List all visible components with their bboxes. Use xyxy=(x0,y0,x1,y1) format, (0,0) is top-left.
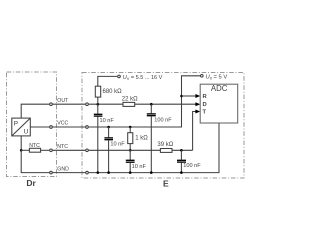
svg-text:P: P xyxy=(14,120,19,127)
svg-text:10 nF: 10 nF xyxy=(100,118,115,124)
capacitor 100 nF (on T) top wire xyxy=(180,150,182,160)
wire OUT harness xyxy=(53,103,86,105)
svg-text:680 kΩ: 680 kΩ xyxy=(103,89,123,95)
svg-text:E: E xyxy=(163,179,169,189)
svg-text:NTC: NTC xyxy=(29,143,40,149)
wire cap to GND xyxy=(97,117,99,173)
wire sensor to NTC node xyxy=(20,136,22,150)
arrow into R pin xyxy=(195,94,200,98)
resistor 22 kOhm xyxy=(123,102,135,106)
wire into R pin xyxy=(182,95,197,97)
wire to NTC resistor xyxy=(21,149,29,151)
enclosure E (ECU dashed box) xyxy=(82,73,244,179)
capacitor 100 nF (on T) plates xyxy=(177,160,186,162)
wire 680k bottom xyxy=(97,97,99,104)
junction GND/10nF ntc xyxy=(129,171,132,174)
junction GND/100nF t xyxy=(180,171,183,174)
svg-text:22 kΩ: 22 kΩ xyxy=(122,96,138,102)
svg-text:UV = 5.5 ... 16 V: UV = 5.5 ... 16 V xyxy=(123,75,163,81)
wire VCC rail to 5V xyxy=(89,76,200,127)
wire OUT to ADC D xyxy=(135,103,197,105)
svg-text:ADC: ADC xyxy=(211,84,228,93)
svg-text:10 nF: 10 nF xyxy=(110,141,125,147)
svg-text:39 kΩ: 39 kΩ xyxy=(157,142,173,148)
wire NTC inside E xyxy=(89,149,161,151)
wire VCC harness xyxy=(53,126,86,128)
capacitor 10 nF (on VCC) top wire xyxy=(108,127,110,137)
wire into T pin xyxy=(193,112,197,151)
terminal OUT (E side) xyxy=(86,103,89,106)
capacitor 100 nF (on OUT) top wire xyxy=(150,104,152,113)
wire OUT inside E xyxy=(89,103,123,105)
wire 680k top to supply xyxy=(98,76,118,86)
svg-text:D: D xyxy=(203,102,207,108)
wire 1k top xyxy=(129,127,131,133)
terminal NTC (E side) xyxy=(86,149,89,152)
svg-text:NTC: NTC xyxy=(57,144,68,150)
svg-text:Dr: Dr xyxy=(26,178,36,188)
IC ADC box xyxy=(200,84,238,123)
arrow into D pin xyxy=(195,102,200,106)
terminal U0 supply xyxy=(201,75,204,78)
junction GND/100nF out xyxy=(150,171,153,174)
svg-text:OUT: OUT xyxy=(57,98,69,104)
capacitor 10 nF (on OUT) plates xyxy=(94,114,103,116)
resistor 1 kOhm xyxy=(128,133,133,144)
junction R/5V xyxy=(180,95,183,98)
wire GND inside Dr xyxy=(21,150,49,172)
capacitor 10 nF (on VCC) plates xyxy=(104,138,113,140)
svg-text:U: U xyxy=(24,128,29,135)
svg-text:100 nF: 100 nF xyxy=(154,117,172,123)
terminal VCC (Dr side) xyxy=(50,126,53,129)
terminal NTC (Dr side) xyxy=(50,149,53,152)
junction VCC/1k xyxy=(129,126,132,129)
junction GND/10nF out xyxy=(97,171,100,174)
wire OUT from sensor xyxy=(21,104,49,118)
capacitor 10 nF (on NTC) top wire xyxy=(129,150,131,160)
wire cap to GND xyxy=(108,140,110,173)
resistor NTC xyxy=(29,148,40,152)
terminal GND (Dr side) xyxy=(50,171,53,174)
enclosure Dr (sensor dashed box) xyxy=(7,72,57,177)
svg-text:U0 = 5 V: U0 = 5 V xyxy=(206,74,228,80)
wire 1k bottom xyxy=(129,144,131,151)
svg-text:GND: GND xyxy=(57,166,69,172)
junction NTC/1k xyxy=(129,149,132,152)
terminal UV supply xyxy=(118,75,121,78)
junction GND/10nF vcc xyxy=(107,171,110,174)
junction OUT/100n xyxy=(150,103,153,106)
terminal VCC (E side) xyxy=(86,126,89,129)
resistor 680 kOhm xyxy=(95,86,100,97)
junction T node xyxy=(180,149,183,152)
resistor 39 kOhm xyxy=(160,149,172,153)
junction VCC/10nF xyxy=(107,126,110,129)
wire NTC harness xyxy=(53,149,86,151)
svg-text:1 kΩ: 1 kΩ xyxy=(135,136,148,142)
wire VCC from sensor xyxy=(30,126,49,128)
wire GND rail xyxy=(89,123,219,173)
junction NTC node in Dr xyxy=(20,149,23,152)
wire cap to GND xyxy=(129,163,131,173)
svg-text:10 nF: 10 nF xyxy=(132,164,147,170)
terminal GND (E side) xyxy=(86,171,89,174)
wire GND harness xyxy=(53,172,86,174)
wire 39k to T node xyxy=(172,149,193,151)
capacitor 10 nF (on OUT) top wire xyxy=(97,104,99,114)
wire NTC to terminal xyxy=(41,149,50,151)
junction OUT/680k xyxy=(97,103,100,106)
svg-text:VCC: VCC xyxy=(57,121,68,127)
wire cap to GND xyxy=(180,163,182,173)
capacitor 100 nF (on OUT) plates xyxy=(147,114,156,116)
capacitor 10 nF (on NTC) plates xyxy=(126,160,135,162)
terminal OUT (Dr side) xyxy=(50,103,53,106)
wire 100nF down to GND xyxy=(150,116,152,173)
pressure sensor cell P/U xyxy=(12,118,31,136)
svg-text:T: T xyxy=(203,110,207,116)
svg-text:100 nF: 100 nF xyxy=(183,163,201,169)
arrow into T pin xyxy=(195,110,200,114)
